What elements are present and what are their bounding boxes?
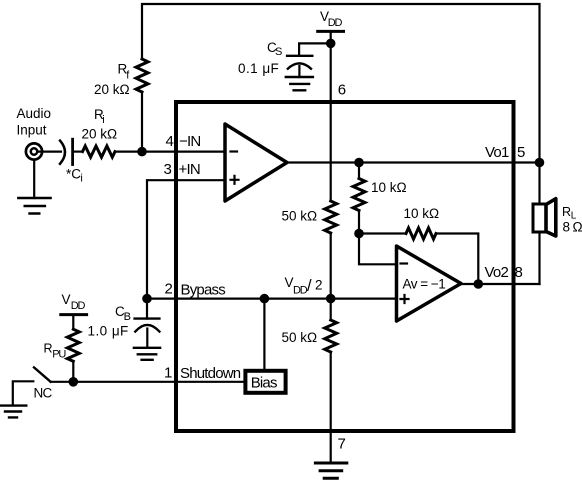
op-amp U2 <box>397 246 462 321</box>
svg-text:Bypass: Bypass <box>181 282 226 299</box>
wire connector to Ci <box>38 151 62 153</box>
svg-text:6: 6 <box>338 82 346 99</box>
resistor Ri <box>83 146 116 157</box>
wire to CS <box>299 43 331 55</box>
speaker RL <box>533 199 556 236</box>
svg-text:50 kΩ: 50 kΩ <box>282 330 318 345</box>
block Bias <box>245 371 285 393</box>
wire speaker top <box>538 163 540 205</box>
svg-text:2: 2 <box>164 281 172 298</box>
wire VDD/2 node to 50k lower to pin 7 ground <box>330 299 332 462</box>
capacitor CB <box>135 299 160 348</box>
svg-text:5: 5 <box>517 144 525 161</box>
capacitor Ci <box>60 139 73 164</box>
label RL <box>562 205 577 222</box>
IC package boundary box <box>176 102 514 431</box>
wire Ri to -IN (pin 4) <box>115 151 225 153</box>
wire feedback to Vo2 <box>436 234 478 285</box>
wire Rf bottom to input node <box>141 92 143 152</box>
node feedback junction <box>354 229 364 239</box>
svg-text:3: 3 <box>163 161 171 178</box>
resistor 10k vertical <box>353 163 365 234</box>
wire bias to bypass line <box>263 299 265 371</box>
svg-text:DD: DD <box>71 300 86 312</box>
wire -in of U2 <box>359 234 397 265</box>
label RPU <box>44 341 67 360</box>
label CS <box>267 40 282 58</box>
wire switch contact to ground <box>13 381 34 405</box>
connector J1 audio input jack <box>26 143 42 159</box>
resistor 50k lower <box>325 320 337 352</box>
wire bypass line pin2 to U2 + input <box>147 298 397 300</box>
svg-text:Vo1: Vo1 <box>485 144 509 161</box>
wire VDD into pin 6 / 50k divider <box>330 31 332 201</box>
svg-text:f: f <box>126 70 130 82</box>
svg-text:i: i <box>80 172 82 184</box>
wire VDD to RPU <box>72 315 74 330</box>
svg-text:/: / <box>307 277 312 295</box>
wire 50k to VDD/2 node <box>330 233 332 299</box>
svg-text:1.0 μF: 1.0 μF <box>88 324 129 339</box>
resistor 50k upper <box>325 201 337 233</box>
wire feedback to 10k horizontal <box>359 232 406 234</box>
ground at audio input <box>18 160 50 214</box>
svg-text:DD: DD <box>293 285 308 297</box>
svg-text:8: 8 <box>515 264 523 281</box>
ground at CB <box>134 348 160 360</box>
wire shutdown pin 1 <box>51 381 246 383</box>
svg-text:R: R <box>44 341 53 355</box>
node CB junction <box>142 294 152 304</box>
svg-text:20 kΩ: 20 kΩ <box>82 127 118 142</box>
svg-text:2: 2 <box>315 278 323 293</box>
svg-text:Bias: Bias <box>251 375 277 392</box>
op-amp U1 <box>225 124 287 201</box>
svg-text:DD: DD <box>328 17 343 29</box>
svg-text:Shutdown: Shutdown <box>180 365 241 382</box>
node bias junction <box>260 294 270 304</box>
svg-text:i: i <box>102 114 104 126</box>
svg-text:0.1 μF: 0.1 μF <box>238 61 279 76</box>
node Vo1/speaker junction <box>535 158 545 168</box>
label Rf <box>118 62 131 82</box>
wire top feedback loop <box>142 4 540 163</box>
svg-text:PU: PU <box>52 348 66 360</box>
svg-text:Vo2: Vo2 <box>485 264 509 281</box>
svg-text:Av = −1: Av = −1 <box>403 277 446 292</box>
svg-text:10 kΩ: 10 kΩ <box>404 206 440 221</box>
node VDD/2 junction <box>326 294 336 304</box>
wire Vo1 from U1 output to pin 5 and speaker <box>287 161 540 163</box>
svg-text:*C: *C <box>66 167 81 182</box>
pin 3 label <box>163 161 199 178</box>
svg-text:−IN: −IN <box>179 133 200 150</box>
pin 4 label <box>165 133 200 150</box>
node Vo2 junction <box>474 279 484 289</box>
resistor RPU <box>67 329 79 361</box>
svg-text:R: R <box>562 205 571 219</box>
node input junction <box>137 147 147 157</box>
label CB <box>115 304 131 323</box>
label VDD/2 <box>285 275 323 297</box>
svg-text:B: B <box>124 311 131 323</box>
svg-text:+IN: +IN <box>179 161 200 178</box>
svg-text:8 Ω: 8 Ω <box>563 220 582 235</box>
svg-text:S: S <box>275 46 282 58</box>
node shutdown junction <box>69 377 79 387</box>
svg-text:20 kΩ: 20 kΩ <box>94 82 130 97</box>
svg-text:NC: NC <box>34 386 53 401</box>
wire RPU to shutdown node <box>72 361 74 382</box>
resistor 10k feedback <box>406 228 436 239</box>
power VDD left <box>61 292 87 315</box>
svg-text:Input: Input <box>17 122 47 137</box>
svg-text:7: 7 <box>338 436 346 453</box>
power VDD top <box>318 9 344 31</box>
wire Ci to Ri <box>74 151 83 153</box>
resistor Rf <box>136 59 148 92</box>
ground at CS <box>286 77 313 90</box>
node Vo1/10k junction <box>354 158 364 168</box>
svg-text:50 kΩ: 50 kΩ <box>282 209 318 224</box>
svg-text:1: 1 <box>164 365 172 382</box>
svg-text:10 kΩ: 10 kΩ <box>371 180 407 195</box>
switch S1 arm <box>34 367 51 381</box>
ground at switch <box>0 406 26 418</box>
wire +IN (pin 3) from bypass node <box>147 180 225 298</box>
pin 2 label <box>164 281 225 299</box>
label *Ci <box>66 167 82 185</box>
capacitor CS <box>287 56 312 77</box>
wire Vo2 from U2 output to pin 8 and speaker <box>461 283 540 285</box>
label Ri <box>94 107 104 126</box>
svg-text:V: V <box>62 292 71 307</box>
node VDD/CS junction <box>326 39 336 49</box>
svg-text:Audio: Audio <box>17 106 52 121</box>
ground at pin 7 <box>315 463 346 478</box>
wire speaker bottom <box>538 232 540 284</box>
pin 1 label <box>164 365 241 383</box>
label Audio Input <box>17 106 52 137</box>
svg-text:4: 4 <box>165 133 173 150</box>
